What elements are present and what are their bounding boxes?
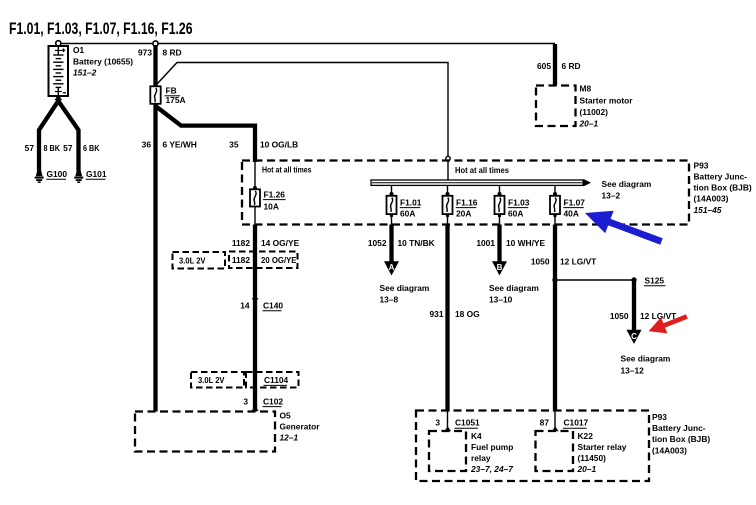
svg-text:20–1: 20–1 [577,464,597,474]
svg-text:20–1: 20–1 [579,119,599,129]
svg-text:tion Box (BJB): tion Box (BJB) [652,434,710,444]
svg-text:Battery (10655): Battery (10655) [73,56,133,66]
svg-text:Fuel pump: Fuel pump [471,442,513,452]
svg-text:Starter motor: Starter motor [580,96,634,106]
connector C1017 [540,411,589,431]
svg-text:relay: relay [471,453,491,463]
svg-text:23–7, 24–7: 23–7, 24–7 [470,464,513,474]
BJB dashed box P93 [242,161,689,225]
svg-text:Hot at all times: Hot at all times [455,165,509,175]
svg-text:K4: K4 [471,431,482,441]
svg-text:6 YE/WH: 6 YE/WH [163,139,197,149]
svg-text:175A: 175A [166,95,186,105]
svg-text:1052: 1052 [368,238,387,248]
wire 36 6 YE/WH down to generator [153,104,157,412]
svg-text:(14A003): (14A003) [694,194,729,204]
svg-text:1001: 1001 [476,238,495,248]
wire battery to grounds [39,96,58,171]
svg-text:60A: 60A [508,208,523,218]
relay K22 dashed box [536,431,627,474]
svg-text:10A: 10A [264,201,279,211]
svg-text:(11450): (11450) [578,453,607,463]
svg-text:1050: 1050 [610,311,629,321]
svg-text:20A: 20A [456,208,471,218]
svg-text:See diagram: See diagram [602,179,652,189]
connector C102 [243,396,283,411]
svg-text:6 BK: 6 BK [83,143,100,153]
svg-text:F1.16: F1.16 [456,197,478,207]
svg-text:35: 35 [229,139,239,149]
node junction at wire 973 [153,41,158,46]
fuse F1.26 10A [250,161,286,225]
svg-text:3: 3 [243,396,248,406]
svg-text:F1.26: F1.26 [264,189,286,199]
svg-text:See diagram: See diagram [489,283,539,293]
svg-text:13–2: 13–2 [602,191,621,201]
svg-text:tion Box (BJB): tion Box (BJB) [694,183,752,193]
svg-text:K22: K22 [578,431,594,441]
svg-text:A: A [389,263,395,272]
svg-text:(14A003): (14A003) [652,445,687,455]
ground G101 [74,169,107,182]
svg-text:F1.01, F1.03, F1.07, F1.16, F1: F1.01, F1.03, F1.07, F1.16, F1.26 [9,20,193,38]
svg-text:G100: G100 [47,169,68,179]
fuse F1.16 20A [443,186,478,225]
P93 BJB label [694,160,752,214]
svg-text:10 OG/LB: 10 OG/LB [260,139,298,149]
fuse F1.07 40A [550,186,585,225]
svg-text:151–2: 151–2 [73,67,97,77]
svg-text:57: 57 [25,143,35,153]
svg-text:F1.01: F1.01 [400,197,422,207]
svg-text:P93: P93 [694,160,709,170]
svg-text:3.0L 2V: 3.0L 2V [198,375,225,385]
svg-text:See diagram: See diagram [380,283,430,293]
wire top horizontal from battery to starter motor drop [58,43,555,45]
starter motor M8 dashed box [536,84,633,129]
wire 931 18 OG down to K4 [430,225,480,412]
wire S125 to arrow C [610,280,677,375]
svg-text:See diagram: See diagram [621,354,671,364]
svg-text:10 WH/YE: 10 WH/YE [506,238,546,248]
svg-text:C140: C140 [263,300,283,310]
svg-text:3: 3 [435,418,440,428]
fuse F1.01 60A [387,186,422,225]
svg-text:M8: M8 [580,84,592,94]
svg-text:(11002): (11002) [580,107,609,117]
wire branch FB to F1.26 [156,106,256,162]
svg-text:36: 36 [142,139,152,149]
svg-text:605: 605 [537,61,551,71]
wire 1052 10 TN/BK with arrow A [368,225,435,305]
dashed box 3.0L 2V upper [173,252,226,269]
svg-text:FB: FB [166,86,177,96]
fuse F1.03 60A [495,186,530,225]
svg-text:8 BK: 8 BK [44,143,61,153]
fuse FB 175A [150,83,185,107]
svg-text:18 OG: 18 OG [455,309,480,319]
svg-text:C1051: C1051 [455,418,480,428]
wire 605 6 RD to starter motor [553,44,557,86]
wire 1050 12 LG/VT down to K22 [531,225,597,412]
connector C140 [240,298,283,311]
svg-text:S125: S125 [645,276,665,286]
svg-text:87: 87 [540,418,550,428]
svg-text:1182: 1182 [232,255,251,265]
svg-text:12 LG/VT: 12 LG/VT [560,257,597,267]
svg-text:60A: 60A [400,208,415,218]
svg-text:C1104: C1104 [264,375,289,385]
svg-text:8 RD: 8 RD [163,48,182,58]
battery O1 [49,45,134,96]
svg-text:10 TN/BK: 10 TN/BK [398,238,435,248]
svg-text:F1.03: F1.03 [508,197,530,207]
svg-text:40A: 40A [564,208,579,218]
svg-text:151–45: 151–45 [694,205,722,215]
red annotation arrow [649,314,688,333]
svg-text:P93: P93 [652,412,667,422]
svg-text:973: 973 [138,48,152,58]
svg-text:Battery Junc-: Battery Junc- [652,423,706,433]
svg-text:13–10: 13–10 [489,294,513,304]
BJB bottom dashed box P93 [416,411,649,482]
wire thin diagonal from FB to bus feed [157,63,448,180]
svg-text:C102: C102 [263,396,283,406]
svg-text:Starter relay: Starter relay [578,442,627,452]
svg-text:G101: G101 [86,169,107,179]
svg-text:1050: 1050 [531,257,550,267]
svg-text:O1: O1 [73,45,85,55]
dashed box 3.0L 2V lower [191,372,244,388]
generator O5 dashed box [135,411,320,452]
svg-text:C: C [631,332,637,341]
relay K4 dashed box [429,431,513,474]
blue annotation arrow [585,211,663,245]
svg-text:Battery Junc-: Battery Junc- [694,172,748,182]
svg-text:3.0L 2V: 3.0L 2V [179,256,206,266]
svg-text:1182: 1182 [232,238,251,248]
svg-text:6 RD: 6 RD [562,61,581,71]
connector C1051 [435,411,480,431]
node circle at BJB box entry [446,156,450,160]
svg-text:Generator: Generator [280,422,321,432]
dashed box 1182 20 OG/YE [229,252,298,269]
wire 973 8 RD vertical [153,45,157,87]
svg-text:57: 57 [63,143,73,153]
svg-text:20 OG/YE: 20 OG/YE [261,255,297,265]
svg-text:Hot at all times: Hot at all times [262,165,312,175]
dashed box C1104 [246,372,299,388]
splice S125 [552,276,665,286]
svg-text:B: B [497,263,503,272]
wire F1.26 down to generator [253,225,257,412]
ground G100 [35,169,68,182]
svg-text:12 LG/VT: 12 LG/VT [640,311,677,321]
node circle battery positive terminal [56,41,61,46]
wire 1001 10 WH/YE with arrow B [476,225,545,305]
svg-text:14: 14 [240,300,250,310]
svg-text:13–12: 13–12 [621,365,645,375]
svg-text:14 OG/YE: 14 OG/YE [261,238,300,248]
svg-text:13–8: 13–8 [380,294,399,304]
svg-text:C1017: C1017 [564,418,589,428]
svg-text:12–1: 12–1 [280,433,299,443]
bus bar [371,179,591,186]
svg-text:O5: O5 [280,411,292,421]
svg-text:F1.07: F1.07 [564,197,586,207]
svg-text:931: 931 [430,309,444,319]
